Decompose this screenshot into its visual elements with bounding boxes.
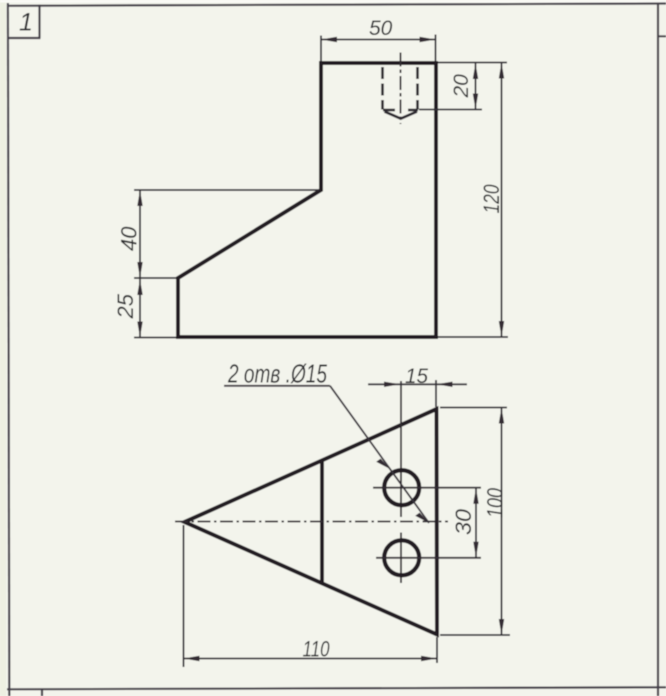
dim 100 arrows: [499, 408, 504, 424]
dim 40 line: [139, 190, 141, 278]
vertical hole centerline lower segment: [400, 533, 402, 584]
dim 15 line: [368, 383, 467, 385]
dim 110 line: [184, 658, 438, 660]
dim 120 arrows: [499, 63, 504, 79]
dim 30 line: [475, 488, 477, 558]
dim 40 extension line: [134, 189, 319, 191]
horizontal centerline: [175, 521, 448, 523]
triangle outline: [185, 409, 438, 635]
svg-text:120: 120: [479, 184, 504, 214]
leader arrowhead at centerline: [415, 513, 429, 523]
svg-text:20: 20: [450, 74, 473, 99]
dim 120 line: [501, 63, 503, 338]
svg-text:30: 30: [451, 508, 476, 535]
dim 15 arrows (outside): [384, 382, 400, 387]
dim 50 arrows: [321, 37, 337, 42]
dim 20 arrows: [473, 63, 478, 79]
dim 50 line: [321, 39, 436, 41]
hidden hole right dashed line: [416, 67, 419, 110]
dim 20 line: [475, 63, 477, 110]
inner vertical edge: [320, 461, 324, 583]
upper hole: [384, 470, 419, 505]
svg-text:40: 40: [117, 226, 142, 251]
dim 100 extension lines: [440, 407, 507, 409]
svg-text:1: 1: [19, 9, 33, 37]
dim 25 arrows: [137, 279, 142, 295]
hole centerline: [400, 53, 402, 125]
svg-text:100: 100: [483, 487, 508, 518]
svg-text:2 omв .Ø15: 2 omв .Ø15: [227, 359, 327, 389]
svg-text:50: 50: [369, 17, 393, 40]
dim 120 extension lines: [438, 62, 507, 64]
svg-text:25: 25: [113, 293, 138, 319]
svg-text:15: 15: [405, 365, 428, 388]
dim 30 arrows: [473, 488, 478, 504]
dim 40 arrows: [137, 190, 142, 206]
task number box: [8, 5, 41, 39]
corner extension line at 278: [134, 277, 176, 279]
adjacent sheet box bottom (right edge): [659, 35, 666, 37]
dim 110 arrows: [184, 656, 200, 661]
dim 110 extension lines: [183, 525, 185, 667]
hidden hole left dashed line: [381, 67, 384, 110]
svg-text:110: 110: [303, 637, 331, 662]
dim 15 right extension: [435, 380, 437, 407]
lower hole: [384, 540, 419, 575]
next row box line (bottom left): [41, 689, 43, 696]
front view outline: [178, 63, 436, 337]
hidden hole bottom dashes: [383, 109, 395, 112]
leader line: [330, 386, 429, 523]
upper hole horizontal centerline: [373, 487, 481, 489]
dim 20 extension line: [419, 109, 482, 111]
dim 100 line: [501, 408, 503, 636]
lower hole horizontal centerline: [376, 557, 481, 559]
dim 25 line: [139, 278, 141, 338]
dim 50 extension lines: [320, 36, 322, 62]
vertical hole centerline upper segment: [400, 381, 402, 517]
leader underline: [224, 385, 330, 387]
hidden hole drill cone: [385, 112, 401, 119]
bottom extension line: [134, 337, 176, 339]
leader arrowhead at hole edge: [376, 459, 390, 469]
